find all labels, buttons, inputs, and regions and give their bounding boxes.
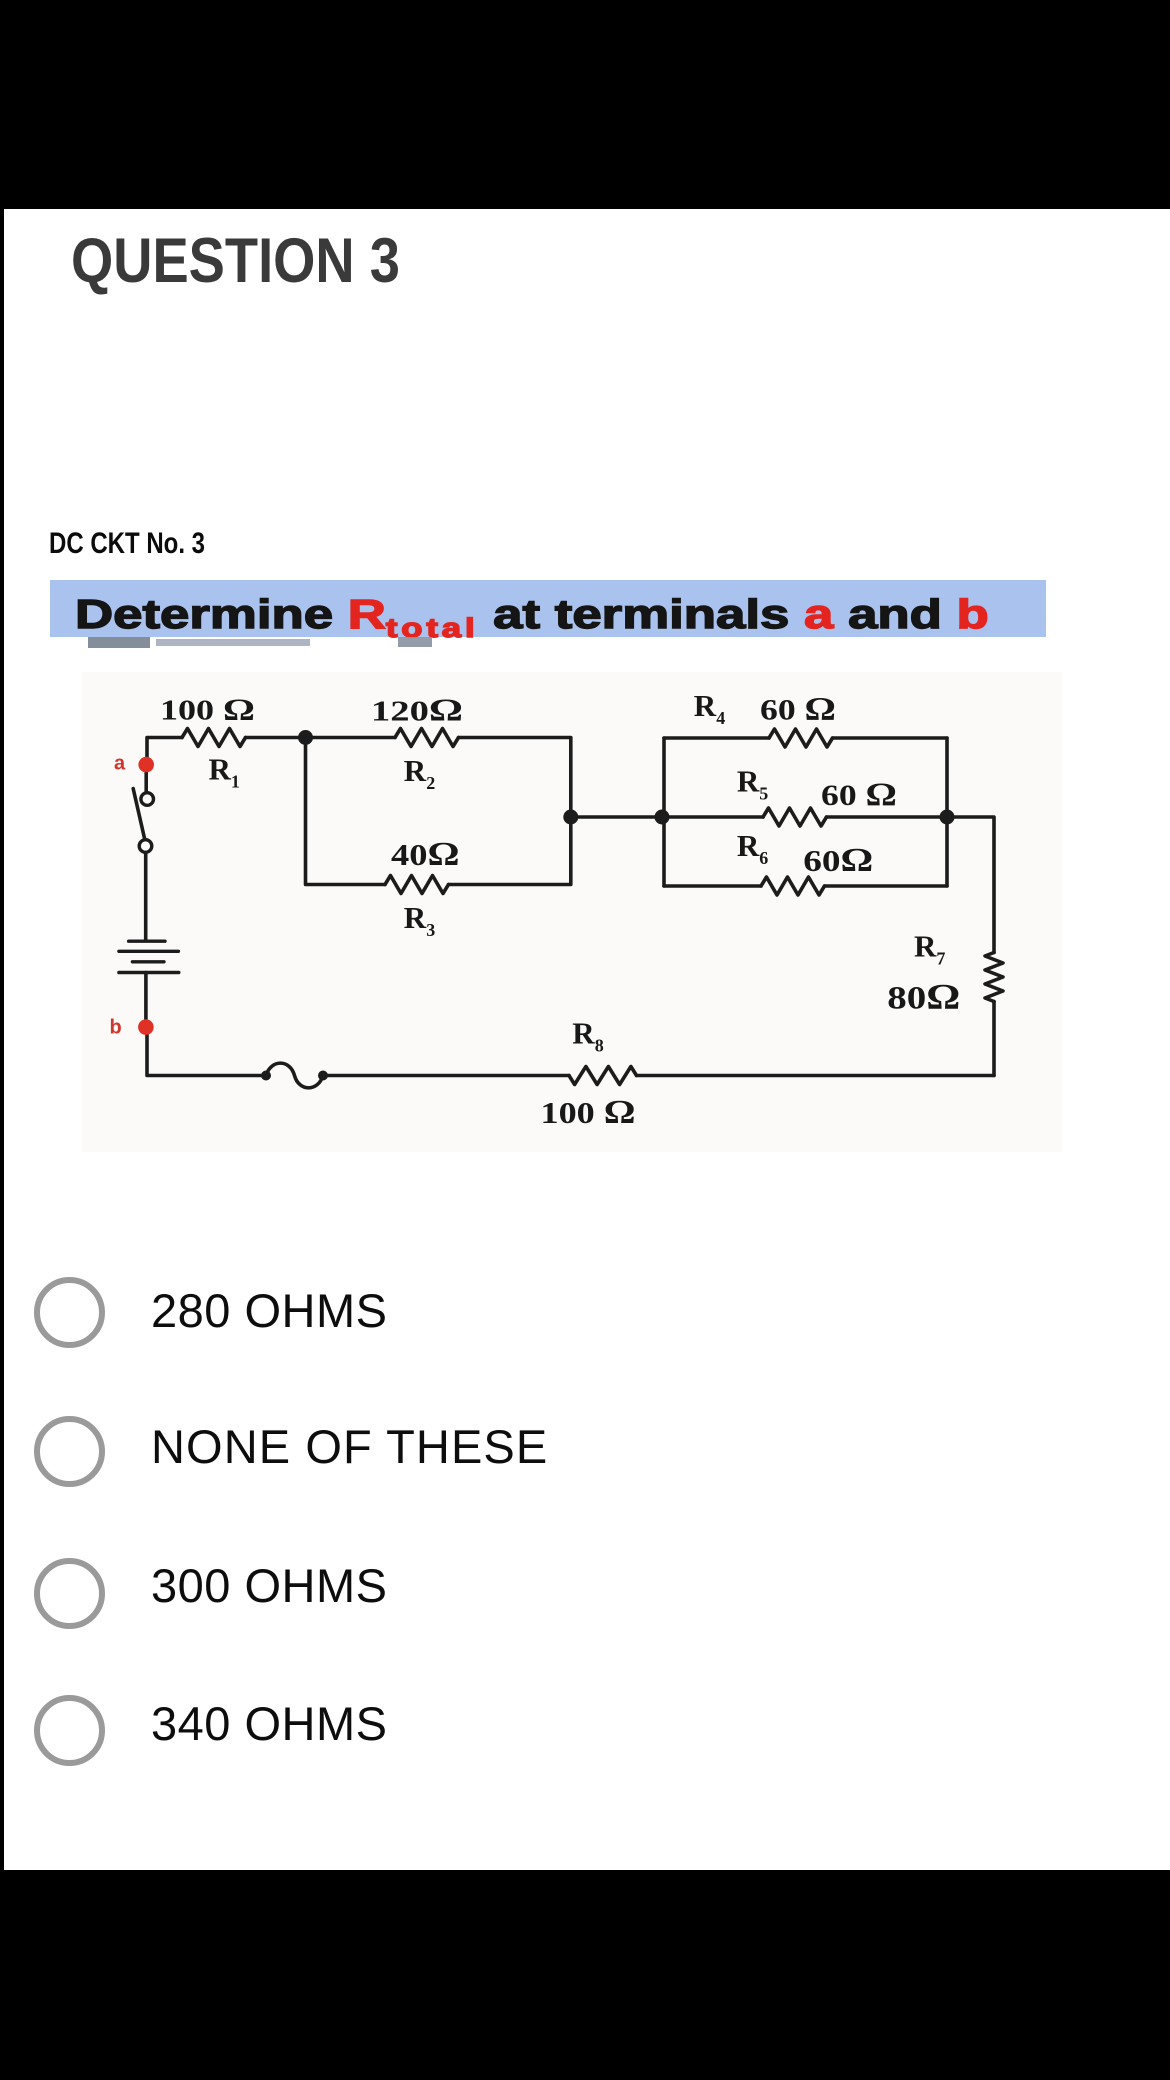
svg-text:a: a: [114, 753, 126, 775]
svg-text:100 Ω: 100 Ω: [541, 1094, 636, 1131]
svg-text:120Ω: 120Ω: [371, 692, 463, 728]
svg-text:60 Ω: 60 Ω: [760, 692, 836, 728]
svg-text:40Ω: 40Ω: [391, 836, 460, 873]
svg-text:100 Ω: 100 Ω: [160, 692, 255, 727]
svg-text:b: b: [110, 1017, 122, 1039]
svg-text:60 Ω: 60 Ω: [821, 777, 897, 813]
svg-text:80Ω: 80Ω: [887, 977, 960, 1017]
svg-text:60Ω: 60Ω: [803, 842, 873, 879]
